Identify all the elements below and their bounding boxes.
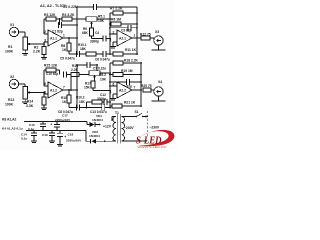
capacitor C17 (50, 122, 60, 131)
label C11 82p (120, 84, 132, 88)
capacitor C2 (77, 4, 137, 10)
svg-text:+: + (50, 123, 52, 127)
connector X2 label (10, 75, 14, 79)
resistor R21 (110, 104, 142, 108)
label R9 68K (82, 27, 89, 35)
capacitor C8 (76, 105, 79, 111)
transformer T1 label (115, 111, 119, 115)
node vertical A2.1 out (136, 7, 138, 54)
connector X2 (9, 79, 18, 88)
label R18 1K (61, 96, 67, 104)
svg-text:R1: R1 (8, 45, 12, 49)
wire X1 to R1 (19, 32, 25, 37)
pin 3 A1.1 (44, 39, 46, 43)
ground under C18 (57, 143, 63, 146)
resistor R6 (110, 22, 138, 26)
svg-text:1N4004: 1N4004 (89, 134, 100, 138)
label C17 2200u (55, 114, 71, 123)
svg-text:C6 0.047u: C6 0.047u (95, 58, 110, 62)
op-amp A2.1 (117, 30, 132, 46)
svg-text:X2: X2 (10, 75, 14, 79)
label R15 12K (44, 64, 58, 68)
svg-text:R5.1: R5.1 (98, 15, 105, 19)
resistor R3 (44, 17, 62, 21)
label R8 1K (61, 44, 67, 52)
resistor R7 (110, 11, 138, 15)
wire A1.2 output (62, 86, 78, 91)
logo url (138, 146, 167, 149)
logo swoosh (138, 130, 174, 146)
svg-text:1: 1 (63, 34, 65, 38)
svg-text:~230V: ~230V (124, 126, 134, 130)
svg-text:10K: 10K (100, 77, 107, 81)
svg-text:0,1u: 0,1u (21, 137, 27, 141)
resistor R2 (42, 44, 46, 55)
svg-text:T1: T1 (115, 111, 119, 115)
capacitor C10 62p (60, 70, 72, 78)
op-amp A1.1 (48, 30, 63, 46)
label K8 A1 A2 (2, 117, 17, 121)
label R12 75 (140, 32, 151, 36)
label R5.1 10K (98, 15, 105, 24)
ground under R13 (22, 99, 28, 104)
wire R8 to tone row (69, 51, 78, 55)
label R7 2.2K (110, 7, 123, 11)
label C4 3300p (90, 31, 99, 44)
ground under R1 (22, 50, 28, 55)
svg-text:7: 7 (134, 85, 136, 89)
node vertical A2.2 input (109, 63, 111, 108)
label R10.2 15K (76, 95, 86, 104)
label C6 0.047u (95, 58, 110, 62)
svg-text:15K: 15K (84, 86, 91, 90)
svg-text:R10.2: R10.2 (76, 95, 85, 99)
label C12 3300p (97, 93, 106, 101)
label C13 0.047u (90, 110, 107, 114)
pin 2 A1.1 (44, 19, 48, 34)
capacitor C3 82p (110, 25, 138, 31)
svg-text:3300p: 3300p (90, 40, 99, 44)
transformer T1 primary (112, 116, 116, 141)
svg-text:A2.2: A2.2 (119, 88, 126, 92)
potentiometer R5.1 (86, 17, 97, 26)
svg-text:C4: C4 (95, 31, 99, 35)
resistor R18f (110, 61, 142, 65)
connector X4 label (158, 80, 162, 84)
wire X2 to R13 (19, 84, 25, 87)
label R2 2.2K (33, 46, 41, 54)
node vertical ch1 out (76, 7, 78, 54)
svg-text:5: 5 (44, 91, 46, 95)
wire mains bottom arrow (146, 140, 148, 142)
connector X3 (154, 36, 163, 45)
capacitor C13 (102, 105, 111, 111)
capacitor C6 (103, 51, 110, 57)
label R5.2 10K (99, 73, 107, 81)
label A1 A2 TL072 (40, 4, 66, 8)
svg-text:A1.2: A1.2 (50, 88, 57, 92)
resistor R10.2 (92, 100, 104, 104)
capacitor C12 (104, 99, 110, 105)
svg-text:68K: 68K (82, 31, 89, 35)
resistor R19 (110, 73, 142, 77)
label R16 2.2K (71, 64, 79, 72)
label VD2 1N4004 (89, 130, 100, 138)
label R18f 2.2K (124, 58, 139, 62)
svg-text:100K: 100K (5, 50, 14, 54)
label C1 82p (52, 30, 63, 34)
label C16 0.1u (42, 133, 48, 137)
svg-text:A2.1: A2.1 (119, 36, 126, 40)
capacitor C4 (92, 36, 111, 42)
wire A2.2 output (132, 85, 142, 91)
svg-text:R6 1M: R6 1M (111, 18, 121, 22)
capacitor C14 (31, 131, 37, 140)
resistor R11 (110, 52, 138, 56)
svg-text:C7 0.22u: C7 0.22u (93, 67, 106, 71)
resistor R9 (90, 26, 94, 36)
label C2 0.22M (63, 5, 78, 9)
pin 6 A2.2 (110, 82, 117, 86)
svg-text:7: 7 (63, 86, 65, 90)
resistor R4 (62, 17, 86, 21)
capacitor C16 (49, 131, 55, 140)
svg-text:R20 75: R20 75 (141, 84, 152, 88)
diode VD2 (91, 139, 112, 144)
transformer T1 secondary (122, 116, 148, 140)
dashed boundary (147, 111, 149, 136)
ground under C16 (49, 140, 55, 143)
potentiometer R13 (23, 87, 32, 100)
label R13 100K (5, 98, 14, 107)
svg-text:~230V: ~230V (150, 125, 160, 129)
svg-text:+12V: +12V (103, 124, 112, 128)
logo text S-LED (136, 136, 162, 147)
label R6 1M (111, 18, 121, 22)
label R21 1K (124, 100, 136, 104)
pin 5 A1.2 (44, 91, 46, 95)
ground under R14 (41, 105, 47, 110)
label C7 0.22u (93, 67, 106, 71)
resistor R18v (67, 90, 71, 103)
label R3 12K (44, 13, 56, 17)
pin 5 A2.2 (110, 91, 118, 95)
label C8 0.047u (58, 110, 73, 114)
connector X1 label (10, 23, 14, 27)
label R11 1K (125, 48, 137, 52)
op-amp A2.2 (117, 82, 132, 98)
svg-text:1: 1 (134, 34, 136, 38)
transformer T1 core (118, 114, 120, 144)
capacitor C7 0.22u (76, 62, 98, 71)
wire A2.1 output (132, 34, 141, 39)
resistor R20 (143, 88, 154, 92)
pin 3 A2.1 (110, 39, 118, 43)
wire VD2 to rail (86, 131, 91, 142)
svg-text:C17: C17 (62, 114, 68, 118)
svg-text:18K: 18K (80, 47, 87, 51)
svg-text:R13: R13 (8, 98, 14, 102)
pin 6 A1.2 (44, 70, 48, 86)
svg-text:3: 3 (110, 39, 112, 43)
connector X1 (9, 27, 18, 36)
resistor R16 (71, 73, 89, 77)
wire jog to R10.2 (86, 102, 92, 108)
svg-text:R4 3.2K: R4 3.2K (62, 13, 75, 17)
potentiometer R5.2 (89, 71, 100, 80)
svg-text:3300p: 3300p (97, 97, 106, 101)
svg-text:2.2K: 2.2K (33, 50, 41, 54)
rail minus12 (26, 130, 86, 132)
resistor R12 (141, 36, 154, 40)
resistor R14 (42, 94, 46, 105)
switch S1 (133, 113, 148, 117)
capacitor C15 (40, 122, 46, 131)
label VD1 1N4004 (92, 114, 103, 122)
ground X4 (152, 96, 166, 101)
svg-text:1K: 1K (62, 100, 67, 104)
label 230V right (150, 125, 160, 129)
svg-text:S1: S1 (135, 110, 139, 114)
label R1 100K (5, 45, 14, 54)
svg-text:R11 1K: R11 1K (125, 48, 137, 52)
svg-text:100K: 100K (5, 103, 14, 107)
ground under C14 (31, 140, 37, 143)
svg-text:5: 5 (110, 91, 112, 95)
svg-text:R3 12K: R3 12K (44, 13, 56, 17)
diode VD1 (90, 122, 102, 127)
ground X3 (152, 45, 166, 50)
resistor R10.1 (86, 52, 103, 56)
svg-text:2200u/16V: 2200u/16V (55, 118, 71, 122)
svg-text:2.2K: 2.2K (71, 68, 79, 72)
label R19 1M (121, 69, 133, 73)
svg-text:10K: 10K (98, 19, 105, 23)
label R17 15K (84, 82, 91, 90)
capacitor C18 (57, 131, 66, 144)
connector X4 (154, 87, 163, 96)
svg-text:A1.1: A1.1 (50, 36, 57, 40)
label plus 12V (103, 124, 112, 128)
svg-text:R18 2.2K: R18 2.2K (124, 58, 139, 62)
label C5 0.047u (60, 57, 75, 61)
svg-text:X4: X4 (158, 80, 162, 84)
svg-text:R21 1K: R21 1K (124, 100, 136, 104)
label K4 A1 A2 (2, 127, 23, 131)
label C15 0.1u (28, 123, 35, 131)
svg-text:1N4004: 1N4004 (92, 118, 103, 122)
svg-text:C3 82p: C3 82p (121, 28, 132, 32)
svg-text:3: 3 (44, 39, 46, 43)
svg-text:WWW.S-LED.RU: WWW.S-LED.RU (138, 146, 167, 149)
resistor R8 (67, 38, 71, 51)
connector X3 label (155, 30, 159, 34)
svg-text:R7 2.2K: R7 2.2K (110, 7, 123, 11)
wire R13 wiper to node (32, 92, 48, 94)
wire pot R5.1 to node (97, 18, 110, 20)
svg-text:X1: X1 (10, 23, 14, 27)
label C18 2200u (66, 133, 82, 143)
svg-text:K8 A1,A2: K8 A1,A2 (2, 117, 17, 121)
svg-text:1K: 1K (62, 48, 67, 52)
node vertical A2.1 input (109, 13, 111, 55)
label R14 3.3K (26, 100, 34, 108)
svg-text:C5 0.047u: C5 0.047u (60, 57, 75, 61)
ground under R2 (41, 55, 47, 60)
svg-text:2200u/16V: 2200u/16V (66, 139, 82, 143)
wire bottom row ch2 (79, 107, 101, 109)
op-amp A1.2 (48, 82, 63, 98)
svg-text:X3: X3 (155, 30, 159, 34)
node vertical ch2 mid (70, 77, 72, 91)
label C14 0.1u (21, 133, 27, 141)
svg-text:R15 12K: R15 12K (44, 64, 58, 68)
wire VD1 drop (87, 122, 90, 125)
capacitor C5 (76, 51, 86, 57)
wire pot R5.2 to node (100, 72, 110, 74)
wire R18 to tone row (69, 103, 78, 108)
svg-text:C16: C16 (42, 133, 48, 137)
svg-text:C2 0.22M: C2 0.22M (63, 5, 78, 9)
ground A2.2 pin5 (110, 94, 116, 100)
potentiometer R1 (23, 37, 32, 50)
resistor R17 (91, 80, 110, 91)
pin 2 A2.1 (110, 30, 117, 34)
svg-text:C18: C18 (68, 133, 74, 137)
svg-text:3.3K: 3.3K (26, 104, 34, 108)
label R4 3.2K (62, 13, 75, 17)
svg-text:R12 75: R12 75 (140, 32, 151, 36)
rail plus12 (24, 121, 87, 123)
ground A2.1 pin3 (110, 42, 116, 48)
switch S1 label (135, 110, 139, 114)
svg-text:K4 A1,A2-0,1u: K4 A1,A2-0,1u (2, 127, 23, 131)
svg-text:C10 62p: C10 62p (46, 72, 58, 76)
wire R1 wiper to node (32, 42, 48, 45)
label C3 82p (121, 28, 132, 32)
resistor R15 (44, 68, 60, 72)
wire A1.1 output (62, 34, 78, 39)
capacitor C11 82p (110, 79, 142, 85)
node vertical A2.2 out (140, 63, 142, 106)
label R20 75 (141, 84, 152, 88)
svg-text:C1 82p: C1 82p (52, 30, 63, 34)
capacitor C1 82p (59, 19, 78, 28)
svg-text:15K: 15K (79, 100, 86, 104)
label R10.1 18K (78, 43, 87, 51)
label 230V left (124, 126, 134, 130)
label C10 62p (46, 72, 58, 76)
node vertical ch2 out (76, 65, 78, 108)
